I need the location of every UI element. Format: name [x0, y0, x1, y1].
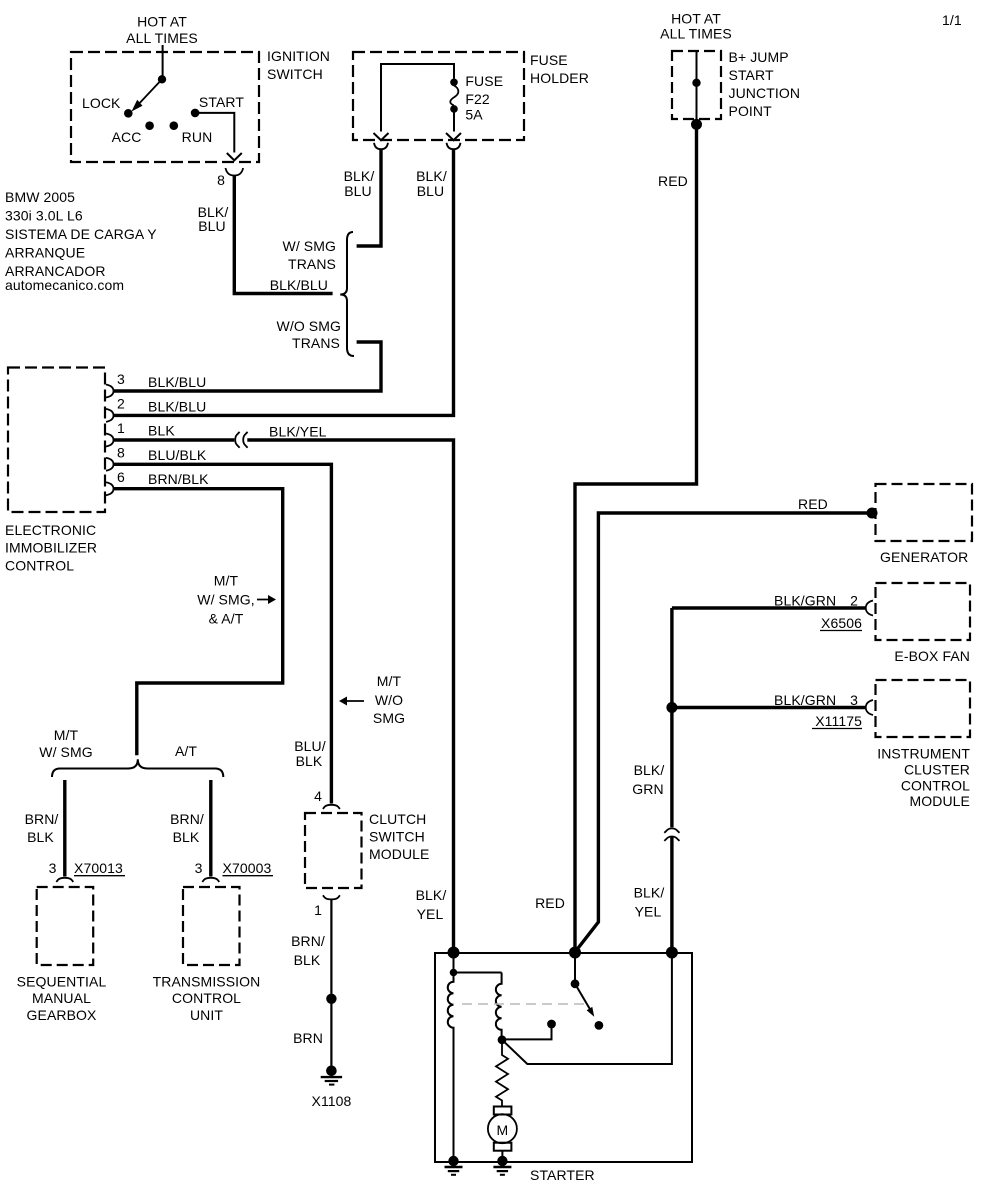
svg-text:CONTROL: CONTROL — [172, 990, 241, 1006]
svg-text:3: 3 — [850, 692, 858, 708]
X70013 label — [74, 860, 125, 876]
svg-text:1: 1 — [117, 420, 125, 436]
svg-text:W/ SMG: W/ SMG — [39, 744, 92, 760]
svg-text:2: 2 — [850, 593, 858, 609]
instrument cluster label — [877, 746, 970, 810]
svg-text:GENERATOR: GENERATOR — [880, 549, 968, 565]
pin 8 connector cup — [226, 168, 244, 176]
svg-text:A/T: A/T — [175, 743, 197, 759]
svg-text:BLK/: BLK/ — [634, 885, 665, 901]
wire BLK/GRN vertical — [670, 608, 673, 827]
svg-text:2: 2 — [117, 396, 125, 412]
X70003 connector cup — [202, 878, 219, 882]
svg-text:1/1: 1/1 — [942, 12, 962, 28]
BRN/BLK label (A/T leg) — [170, 811, 204, 845]
starter ground dot left — [448, 1156, 458, 1166]
svg-text:BLU/: BLU/ — [294, 738, 326, 754]
svg-text:BLU: BLU — [198, 218, 226, 234]
wire to pull-in coil — [454, 972, 502, 974]
switch pivot dot — [571, 979, 580, 988]
X11175 label — [812, 713, 862, 729]
pin numbers — [117, 371, 125, 485]
svg-text:F22: F22 — [465, 91, 490, 107]
svg-text:POINT: POINT — [729, 103, 773, 119]
clutch switch module pin 4 connector — [323, 805, 340, 809]
immobilizer pin 2 connector — [106, 409, 114, 422]
svg-text:W/O: W/O — [375, 692, 403, 708]
svg-text:BLK/GRN: BLK/GRN — [774, 692, 836, 708]
svg-text:BLK/YEL: BLK/YEL — [269, 424, 327, 440]
generator junction dot — [867, 508, 878, 519]
svg-text:X70003: X70003 — [223, 860, 272, 876]
svg-text:M: M — [497, 1122, 509, 1138]
svg-text:BRN/: BRN/ — [291, 933, 325, 949]
svg-text:X1108: X1108 — [312, 1093, 352, 1109]
B+ output junction dot — [691, 119, 702, 130]
instrument cluster box — [876, 680, 971, 737]
svg-text:HOT AT: HOT AT — [137, 14, 187, 30]
switch contact dot — [595, 1021, 604, 1030]
solenoid node dot — [450, 969, 458, 977]
B+ jump label — [729, 49, 801, 119]
svg-text:CLUTCH: CLUTCH — [369, 811, 426, 827]
ignition switch label — [267, 48, 330, 82]
wire RED from B+ to starter — [575, 124, 697, 952]
fuse F22 label — [465, 73, 503, 123]
BLK/YEL label (left starter) — [416, 887, 447, 922]
svg-text:SWITCH: SWITCH — [267, 66, 323, 82]
starter box — [435, 953, 692, 1162]
immobilizer pin 8 connector — [106, 458, 114, 471]
svg-text:BLK/: BLK/ — [634, 762, 665, 778]
svg-text:TRANS: TRANS — [292, 335, 340, 351]
svg-text:GRN: GRN — [632, 781, 663, 797]
ground dot X1108 — [326, 1066, 337, 1077]
svg-text:ARRANQUE: ARRANQUE — [5, 245, 85, 261]
wire immobilizer pin 6 BRN/BLK — [113, 489, 283, 756]
svg-text:BLU/BLK: BLU/BLK — [148, 447, 207, 463]
svg-text:X70013: X70013 — [74, 860, 123, 876]
transmission control unit box — [183, 887, 240, 965]
fuse holder box — [353, 52, 524, 140]
wire immobilizer pin 1 BLK — [113, 438, 234, 441]
svg-text:BLK: BLK — [148, 423, 175, 439]
svg-text:INSTRUMENT: INSTRUMENT — [877, 746, 970, 762]
pull-in coil — [496, 973, 502, 1040]
svg-text:BLK/: BLK/ — [416, 168, 447, 184]
generator box — [876, 484, 973, 541]
svg-text:3: 3 — [49, 860, 57, 876]
svg-text:HOT AT: HOT AT — [671, 11, 721, 27]
wire A/T leg — [209, 780, 212, 877]
sequential manual gearbox box — [37, 887, 93, 965]
svg-text:BLK/BLU: BLK/BLU — [270, 277, 328, 293]
svg-text:ELECTRONIC: ELECTRONIC — [5, 522, 96, 538]
starter terminal dot BLK/YEL right — [666, 947, 678, 959]
svg-text:MODULE: MODULE — [910, 793, 971, 809]
clutch pin 1 connector — [323, 895, 340, 899]
svg-text:MANUAL: MANUAL — [32, 990, 91, 1006]
immobilizer pin 1 connector — [106, 434, 114, 447]
svg-text:W/ SMG,: W/ SMG, — [197, 592, 254, 608]
switch feed — [574, 953, 576, 984]
motor ground wire — [501, 1151, 503, 1160]
svg-text:M/T: M/T — [54, 727, 79, 743]
svg-text:M/T: M/T — [377, 673, 402, 689]
arrow right (M/T W SMG) — [257, 595, 276, 604]
wire BLK/YEL vertical to starter — [670, 837, 673, 953]
BRN/BLK label (clutch) — [291, 933, 325, 968]
M/T W/SMG A/T note — [197, 573, 254, 627]
BLK/BLU label left fuse — [344, 168, 375, 199]
wire feed into ignition switch — [162, 45, 164, 79]
fuse holder left pin arrow — [374, 133, 389, 140]
svg-text:4: 4 — [314, 788, 322, 804]
mechanical link dashed — [462, 1003, 586, 1005]
svg-text:SISTEMA DE CARGA Y: SISTEMA DE CARGA Y — [5, 226, 157, 242]
svg-text:LOCK: LOCK — [82, 95, 121, 111]
junction dot BLK/GRN — [666, 702, 677, 713]
transmission control unit label — [153, 974, 261, 1024]
svg-text:B+ JUMP: B+ JUMP — [729, 49, 789, 65]
svg-text:HOLDER: HOLDER — [530, 70, 589, 86]
svg-text:BLU: BLU — [344, 183, 372, 199]
wire immobilizer pin 8 BLU/BLK — [113, 464, 331, 803]
svg-text:BRN: BRN — [293, 1030, 323, 1046]
BLK/GRN label vertical — [632, 762, 664, 797]
starter ground symbol right — [493, 1167, 511, 1175]
wire junction to right loop — [502, 953, 672, 1064]
svg-text:START: START — [729, 67, 774, 83]
starter ground symbol left — [445, 1167, 463, 1175]
hot at all times label (right) — [660, 11, 732, 42]
switch arm with arrow — [575, 984, 594, 1017]
svg-text:1: 1 — [314, 902, 322, 918]
hot at all times label (left) — [126, 14, 198, 47]
svg-text:BLK: BLK — [296, 753, 323, 769]
svg-text:X11175: X11175 — [815, 713, 862, 729]
wire fuse right output to immobilizer pin 2 — [113, 150, 454, 415]
svg-text:BLK/: BLK/ — [416, 887, 447, 903]
svg-text:RUN: RUN — [182, 129, 213, 145]
aux contact dot — [547, 1020, 556, 1029]
svg-text:JUNCTION: JUNCTION — [729, 85, 801, 101]
BLK/BLU label (ignition) — [198, 204, 229, 234]
fuse holder label — [530, 52, 589, 86]
resistor — [496, 1040, 508, 1107]
wire BRN/BLK from clutch module — [330, 899, 332, 1070]
svg-text:automecanico.com: automecanico.com — [5, 277, 124, 293]
M/T W/O SMG note — [373, 673, 405, 726]
svg-text:IGNITION: IGNITION — [267, 48, 330, 64]
svg-text:TRANS: TRANS — [288, 256, 336, 272]
immobilizer pin 3 connector — [106, 385, 114, 398]
W/SMG-W/O SMG selection brace — [340, 232, 354, 356]
B+ internal wire — [696, 51, 698, 121]
arrow left (M/T W/O SMG) — [339, 697, 364, 706]
svg-text:RED: RED — [535, 895, 565, 911]
X70013 connector cup — [56, 878, 73, 882]
wire BLK/GRN to e-box fan — [672, 606, 866, 609]
ground symbol X1108 — [321, 1077, 342, 1085]
svg-text:SWITCH: SWITCH — [369, 829, 425, 845]
svg-text:BLK/BLU: BLK/BLU — [148, 399, 206, 415]
ACC contact dot — [145, 121, 154, 130]
sequential manual gearbox label — [17, 974, 107, 1024]
svg-text:BLK: BLK — [294, 952, 321, 968]
starter terminal dot RED — [569, 947, 581, 959]
e-box fan box — [876, 583, 971, 640]
hold-in coil — [448, 973, 454, 1161]
svg-text:TRANSMISSION: TRANSMISSION — [153, 974, 261, 990]
starter terminal dot BLK/YEL left — [448, 947, 460, 959]
svg-text:ALL TIMES: ALL TIMES — [126, 30, 198, 46]
svg-text:MODULE: MODULE — [369, 846, 430, 862]
motor brush top — [494, 1107, 512, 1115]
svg-text:GEARBOX: GEARBOX — [27, 1007, 98, 1023]
svg-text:5A: 5A — [465, 107, 483, 123]
START contact dot — [191, 109, 200, 118]
B+ node dot — [692, 79, 700, 87]
svg-text:YEL: YEL — [635, 904, 662, 920]
svg-text:BRN/: BRN/ — [170, 811, 204, 827]
svg-text:IMMOBILIZER: IMMOBILIZER — [5, 540, 97, 556]
ignition switch box — [71, 52, 259, 162]
X70003 label — [223, 860, 274, 876]
svg-text:BLK: BLK — [27, 829, 54, 845]
svg-text:STARTER: STARTER — [530, 1167, 595, 1183]
starter ground dot right — [497, 1156, 507, 1166]
svg-text:BRN/: BRN/ — [25, 811, 59, 827]
svg-text:BLK/GRN: BLK/GRN — [774, 593, 836, 609]
svg-text:START: START — [199, 94, 244, 110]
transmission selection brace — [52, 759, 223, 777]
immobilizer pin 6 connector — [106, 482, 114, 495]
svg-text:YEL: YEL — [417, 906, 444, 922]
svg-text:BRN/BLK: BRN/BLK — [148, 471, 209, 487]
BLK/YEL label right — [634, 885, 665, 920]
svg-text:RED: RED — [798, 496, 828, 512]
svg-text:3: 3 — [117, 371, 125, 387]
wire BLK/BLU from ignition pin 8 — [234, 176, 332, 294]
svg-text:BLK/BLU: BLK/BLU — [148, 374, 206, 390]
svg-text:UNIT: UNIT — [190, 1007, 223, 1023]
svg-text:BMW 2005: BMW 2005 — [5, 189, 75, 205]
fuse holder right pin arrow — [446, 133, 461, 140]
splice dot — [326, 994, 336, 1004]
coil junction dot — [498, 1035, 507, 1044]
svg-text:FUSE: FUSE — [465, 73, 503, 89]
svg-text:3: 3 — [195, 860, 203, 876]
svg-text:8: 8 — [217, 172, 225, 188]
LOCK contact dot — [124, 109, 133, 118]
svg-text:RED: RED — [658, 173, 688, 189]
wire SMG leg — [63, 780, 66, 877]
svg-text:CLUSTER: CLUSTER — [904, 762, 970, 778]
motor brush bottom — [494, 1143, 512, 1151]
svg-text:W/O SMG: W/O SMG — [277, 318, 341, 334]
fuse holder internal wire — [381, 64, 454, 132]
wire RED generator to starter — [576, 513, 872, 951]
wire fuse left output W/ SMG — [357, 150, 381, 246]
svg-text:E-BOX FAN: E-BOX FAN — [894, 648, 970, 664]
B+ jump start junction point box — [672, 51, 721, 119]
BRN/BLK label (SMG leg) — [25, 811, 59, 845]
wire BLK/GRN to instrument cluster — [672, 706, 866, 709]
svg-text:ACC: ACC — [112, 129, 142, 145]
motor M — [488, 1114, 517, 1143]
svg-text:CONTROL: CONTROL — [901, 778, 970, 794]
electronic immobilizer control box — [8, 368, 105, 513]
svg-text:BLK/: BLK/ — [344, 168, 375, 184]
svg-text:330i 3.0L L6: 330i 3.0L L6 — [5, 208, 83, 224]
e-box fan pin connector — [866, 601, 873, 616]
aux contact wire — [502, 1024, 552, 1039]
svg-text:ALL TIMES: ALL TIMES — [660, 26, 732, 42]
svg-text:SMG: SMG — [373, 710, 405, 726]
immobilizer label — [5, 522, 97, 574]
svg-text:BLU: BLU — [417, 183, 445, 199]
svg-text:6: 6 — [117, 469, 125, 485]
solenoid feed wire — [453, 953, 455, 973]
svg-text:BLK: BLK — [173, 829, 200, 845]
BLU/BLK label — [294, 738, 326, 769]
W/ SMG TRANS label — [283, 238, 336, 272]
W/O SMG TRANS label — [277, 318, 341, 351]
wire BLK/YEL pin1 to starter — [247, 440, 453, 953]
M/T W/ SMG label — [39, 727, 92, 760]
BMW title block — [5, 189, 157, 293]
X6506 label — [820, 615, 862, 631]
svg-text:8: 8 — [117, 445, 125, 461]
RUN contact dot — [170, 121, 179, 130]
svg-text:& A/T: & A/T — [209, 611, 244, 627]
ignition rotor dot — [158, 75, 166, 83]
ignition switch arm — [132, 79, 163, 111]
svg-text:W/ SMG: W/ SMG — [283, 238, 336, 254]
svg-text:SEQUENTIAL: SEQUENTIAL — [17, 974, 107, 990]
clutch switch module box — [305, 813, 362, 888]
svg-text:CONTROL: CONTROL — [5, 558, 74, 574]
BLK/BLU label right fuse — [416, 168, 447, 199]
fuse holder right pin cup — [447, 143, 461, 149]
wire W/O SMG branch to immobilizer pin 3 — [113, 342, 381, 391]
inline connector (vertical wire) — [664, 828, 679, 841]
clutch switch module label — [369, 811, 430, 862]
inline connector C101 — [235, 432, 247, 448]
fuse F22 element — [450, 79, 458, 113]
instrument cluster pin connector — [866, 700, 873, 715]
svg-text:M/T: M/T — [214, 573, 239, 589]
pin wire labels — [148, 374, 209, 487]
svg-text:FUSE: FUSE — [530, 52, 568, 68]
svg-text:X6506: X6506 — [821, 615, 862, 631]
wire from START down to pin 8 — [195, 113, 242, 160]
fuse holder left pin cup — [374, 143, 388, 149]
